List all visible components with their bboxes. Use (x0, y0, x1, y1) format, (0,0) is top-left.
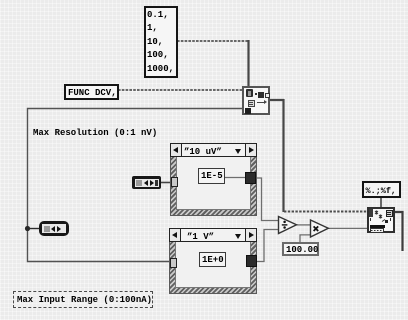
numeric constant 100.00 (282, 242, 319, 256)
wire: case2 1E+0 tunnel to divide bottom input (256, 230, 279, 262)
free label: Max Input Range (0:100nA) dashed frame (13, 291, 153, 308)
divide function (279, 217, 297, 234)
string constant: FUNC DCV, (64, 84, 119, 100)
subVI: build command (icon) (242, 86, 270, 115)
case structure 10uV: inner area (176, 156, 251, 210)
wire: case1 1E-5 tunnel to divide top input (255, 178, 279, 221)
wire: 1E+0 constant to case2 output tunnel (225, 261, 249, 263)
ring constant: resolution select (39, 221, 69, 236)
wire: range ring constant to case1 selector tunnel (160, 182, 170, 184)
string constant: range list 0.1,1,10,100,1000 (144, 6, 178, 78)
numeric constant 1E+0 (199, 252, 226, 267)
wire: divide output to multiply input (296, 224, 311, 226)
numeric constant 1E-5 (198, 168, 225, 184)
multiply function (311, 220, 329, 237)
free label: Max Resolution (0:1 nV) (33, 128, 157, 138)
wire: junction stub to resolution ring constant (28, 228, 41, 230)
case structure: "10 uV" frame (170, 143, 257, 216)
wire: resolution ring to build-command VI and to case selector (long loop) (28, 109, 243, 262)
case structure 10uV: header bar (170, 143, 257, 157)
subVI: format into string (icon) (367, 207, 395, 233)
case structure: "1 V" frame (169, 228, 257, 294)
case1 output tunnel (245, 172, 256, 184)
wire: FUNC DCV string to build-command VI (118, 89, 243, 91)
ring constant: range select (132, 176, 161, 189)
case structure 1V: inner area (175, 241, 251, 288)
case2 output tunnel (246, 255, 257, 267)
string constant: format %.;%f, (362, 181, 401, 198)
wire: string over to format-into-string VI (dashed) (284, 211, 368, 213)
wire: range list string drop to VI top pin (247, 40, 249, 87)
wire: range list string to build-command VI (horizontal, dashed pink string wire) (177, 40, 249, 42)
wire: build-command VI string out, right then down (270, 99, 284, 212)
wire: 1E-5 constant to case1 output tunnel (225, 177, 248, 179)
wire: format string constant down into VI (380, 198, 382, 208)
case2 selector tunnel (170, 258, 177, 268)
junction on resolution wire (25, 226, 30, 231)
wire: multiply output to format-into-string VI (328, 227, 368, 229)
wire: format-into-string VI output right then down (cropped) (395, 212, 403, 251)
case1 selector tunnel (171, 177, 178, 187)
case structure 1V: header bar (169, 228, 257, 242)
wire: 100.00 constant up to multiply lower input (300, 235, 313, 242)
